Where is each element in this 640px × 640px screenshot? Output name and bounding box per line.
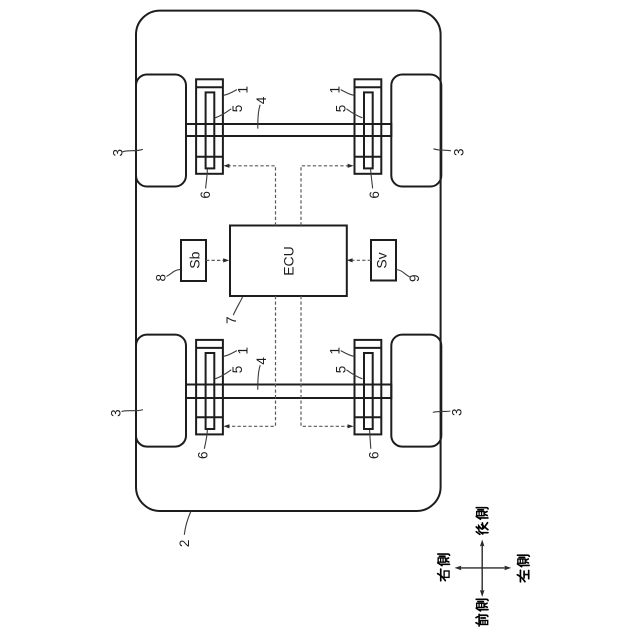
svg-text:ECU: ECU bbox=[281, 246, 297, 276]
svg-text:Sv: Sv bbox=[374, 252, 390, 268]
svg-text:2: 2 bbox=[177, 540, 192, 548]
svg-text:5: 5 bbox=[334, 105, 349, 113]
svg-text:6: 6 bbox=[367, 191, 382, 199]
svg-text:3: 3 bbox=[450, 409, 465, 417]
svg-text:3: 3 bbox=[108, 409, 123, 417]
svg-text:4: 4 bbox=[254, 357, 269, 365]
svg-text:8: 8 bbox=[154, 274, 169, 282]
svg-text:7: 7 bbox=[224, 316, 239, 324]
svg-text:4: 4 bbox=[254, 96, 269, 104]
svg-text:5: 5 bbox=[334, 366, 349, 374]
svg-text:1: 1 bbox=[236, 347, 251, 355]
svg-text:5: 5 bbox=[230, 105, 245, 113]
svg-text:1: 1 bbox=[328, 86, 343, 94]
svg-text:6: 6 bbox=[198, 191, 213, 199]
svg-text:1: 1 bbox=[328, 347, 343, 355]
svg-text:9: 9 bbox=[407, 274, 422, 282]
svg-text:6: 6 bbox=[196, 451, 211, 459]
svg-text:Sb: Sb bbox=[186, 251, 202, 268]
svg-text:1: 1 bbox=[236, 86, 251, 94]
svg-text:5: 5 bbox=[230, 366, 245, 374]
svg-text:6: 6 bbox=[367, 451, 382, 459]
svg-text:3: 3 bbox=[452, 148, 467, 156]
svg-text:3: 3 bbox=[110, 149, 125, 157]
